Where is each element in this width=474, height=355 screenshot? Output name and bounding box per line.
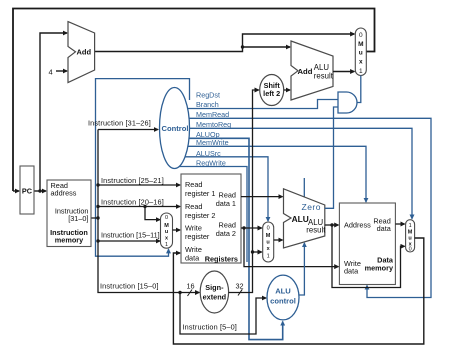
svg-text:ALU: ALU — [292, 214, 309, 224]
svg-text:Control: Control — [162, 124, 189, 133]
svg-text:register 2: register 2 — [185, 211, 215, 220]
svg-text:1: 1 — [165, 242, 168, 248]
wire PC feedback (top mux output to PC input) — [13, 9, 375, 192]
svg-text:0: 0 — [267, 226, 270, 232]
wire instruction[5-0] to ALU control — [180, 293, 266, 335]
wire PC+4 to branch adder top input — [243, 46, 291, 48]
wire shift left 2 output to branch adder — [284, 89, 290, 91]
wire ALU control output to ALU — [299, 243, 304, 295]
wire MemWrite control signal to data memory top — [188, 146, 366, 202]
svg-text:Add: Add — [77, 48, 92, 57]
wire instruction[20-16] to regdst mux input 0 — [145, 207, 160, 220]
wire read data 1 to ALU input 1 — [241, 196, 283, 198]
wire write-back mux output to registers write data — [173, 238, 423, 344]
wire instruction[31-26] to control — [98, 129, 158, 131]
wire instruction bus vertical — [91, 130, 199, 293]
mux RegDst — [161, 213, 173, 248]
wire ALUSrc mux output to ALU input 2 — [274, 239, 283, 241]
wire sign extend to ALUSrc mux input 1 — [253, 251, 262, 253]
svg-text:Add: Add — [298, 67, 313, 76]
svg-text:control: control — [270, 297, 296, 306]
svg-text:Address: Address — [344, 221, 371, 230]
svg-text:MemRead: MemRead — [196, 110, 229, 119]
box registers — [181, 174, 241, 263]
svg-text:1: 1 — [267, 254, 270, 260]
wire MemtoReg control signal to write-back mux select — [190, 128, 413, 218]
wire instruction[20-16] to read register 2 — [98, 206, 180, 208]
box instruction memory — [47, 180, 91, 247]
wire PC to Add (PC+4) top input — [40, 33, 67, 191]
node PC output junction — [38, 189, 41, 192]
adder Add (PC+4) — [68, 22, 95, 83]
svg-text:Instruction [25–21]: Instruction [25–21] — [101, 176, 164, 185]
wire ALU result to write-back mux input 0 — [332, 225, 405, 288]
svg-text:0: 0 — [359, 32, 363, 39]
mux MemtoReg (write-back) — [406, 220, 415, 252]
svg-text:x: x — [359, 59, 363, 66]
node ALU result junction — [330, 223, 333, 226]
svg-text:M: M — [266, 233, 271, 239]
bus width slash 16 — [188, 290, 193, 297]
node instruction[15-0] junction — [178, 291, 181, 294]
mux ALUSrc — [263, 222, 274, 262]
box PC — [20, 166, 34, 214]
svg-text:[31–0]: [31–0] — [68, 214, 88, 223]
svg-text:1: 1 — [409, 223, 412, 229]
wire Branch control signal to AND gate — [188, 100, 338, 109]
node sign extend output branch — [251, 250, 254, 253]
svg-text:Instruction [15–11]: Instruction [15–11] — [101, 231, 160, 240]
wire RegWrite control signal to registers — [179, 167, 247, 263]
svg-text:memory: memory — [365, 263, 394, 272]
wire read data 2 to ALUSrc mux input 0 — [241, 227, 262, 229]
wire ALUOp stub above ALU — [303, 178, 305, 197]
svg-text:Sign-: Sign- — [205, 283, 224, 292]
svg-text:ALU: ALU — [275, 287, 291, 296]
svg-text:register: register — [185, 232, 210, 241]
svg-text:data 1: data 1 — [216, 199, 236, 208]
svg-text:register 1: register 1 — [185, 189, 215, 198]
adder Add ALU result (branch target) — [291, 41, 333, 100]
box data memory — [339, 203, 395, 285]
svg-text:memory: memory — [55, 236, 84, 245]
svg-text:1: 1 — [359, 68, 363, 75]
svg-text:extend: extend — [203, 293, 227, 302]
svg-text:u: u — [165, 229, 168, 235]
svg-text:Instruction [15–0]: Instruction [15–0] — [100, 282, 159, 291]
svg-text:result: result — [306, 225, 326, 234]
svg-text:Zero: Zero — [302, 202, 321, 212]
node PC+4 branch junction — [241, 45, 244, 48]
svg-text:data: data — [377, 224, 392, 233]
wire PC+4 from Add output — [95, 34, 355, 52]
control unit oval — [160, 88, 190, 169]
svg-text:MemtoReg: MemtoReg — [196, 120, 231, 129]
wire ALU result to data memory address — [325, 224, 339, 226]
svg-text:data: data — [344, 267, 359, 276]
wire data memory read data to write-back mux input 1 — [395, 223, 404, 225]
wire instruction[25-21] to read register 1 — [98, 184, 180, 186]
wire ALUSrc control signal to ALU mux select — [185, 157, 268, 221]
wire MemRead control signal to data memory bottom — [189, 118, 431, 297]
svg-text:ALUSrc: ALUSrc — [196, 149, 221, 158]
svg-text:PC: PC — [22, 187, 33, 196]
wire Zero to AND gate — [325, 107, 338, 208]
node read data 2 junction — [242, 226, 245, 229]
node instruction bus junctions — [96, 216, 99, 219]
svg-text:data: data — [185, 254, 200, 263]
mux branch (top right) — [355, 28, 366, 76]
gate AND (branch and zero) — [338, 92, 357, 113]
svg-text:4: 4 — [49, 68, 53, 77]
wire PC output to instruction memory — [34, 190, 46, 192]
wire AND output to top mux select — [357, 76, 361, 103]
svg-text:32: 32 — [236, 282, 244, 291]
svg-text:u: u — [359, 50, 363, 57]
svg-text:0: 0 — [409, 247, 412, 253]
svg-text:left 2: left 2 — [263, 89, 280, 98]
svg-text:Read: Read — [185, 202, 202, 211]
wire RegDst control signal (oval top to mux bottom select) — [96, 79, 190, 257]
wire instruction[15-11] to regdst mux input 1 — [98, 240, 160, 242]
node instruction[20-16] branch — [143, 205, 146, 208]
svg-text:MemWrite: MemWrite — [196, 138, 229, 147]
svg-text:u: u — [266, 240, 269, 246]
oval shift left 2 — [260, 75, 284, 106]
svg-text:RegDst: RegDst — [196, 91, 220, 100]
svg-text:data 2: data 2 — [216, 229, 236, 238]
svg-text:16: 16 — [187, 282, 195, 291]
wire branch adder output to top mux input 1 — [333, 71, 354, 73]
svg-text:Branch: Branch — [196, 100, 219, 109]
wire ALUOp control signal to ALU control oval — [189, 138, 283, 339]
svg-text:0: 0 — [165, 215, 168, 221]
bus width slash 32 — [238, 289, 242, 295]
svg-text:Instruction [5–0]: Instruction [5–0] — [183, 322, 237, 331]
svg-text:M: M — [358, 41, 363, 48]
svg-text:Registers: Registers — [205, 255, 238, 264]
wire sign extend output to shift left 2 and ALUSrc mux — [229, 90, 259, 293]
svg-text:result: result — [314, 71, 334, 80]
oval sign extend — [200, 271, 228, 313]
svg-text:RegWrite: RegWrite — [196, 159, 226, 168]
ALU main — [284, 189, 325, 248]
svg-text:Instruction [31–26]: Instruction [31–26] — [88, 119, 151, 128]
svg-text:Read: Read — [185, 180, 202, 189]
wire regdst mux output to write register — [173, 229, 181, 231]
oval ALU control — [267, 275, 299, 320]
svg-text:address: address — [51, 189, 77, 198]
wire read data 2 to data memory write data — [244, 228, 338, 267]
svg-text:Instruction [20–16]: Instruction [20–16] — [101, 198, 164, 207]
